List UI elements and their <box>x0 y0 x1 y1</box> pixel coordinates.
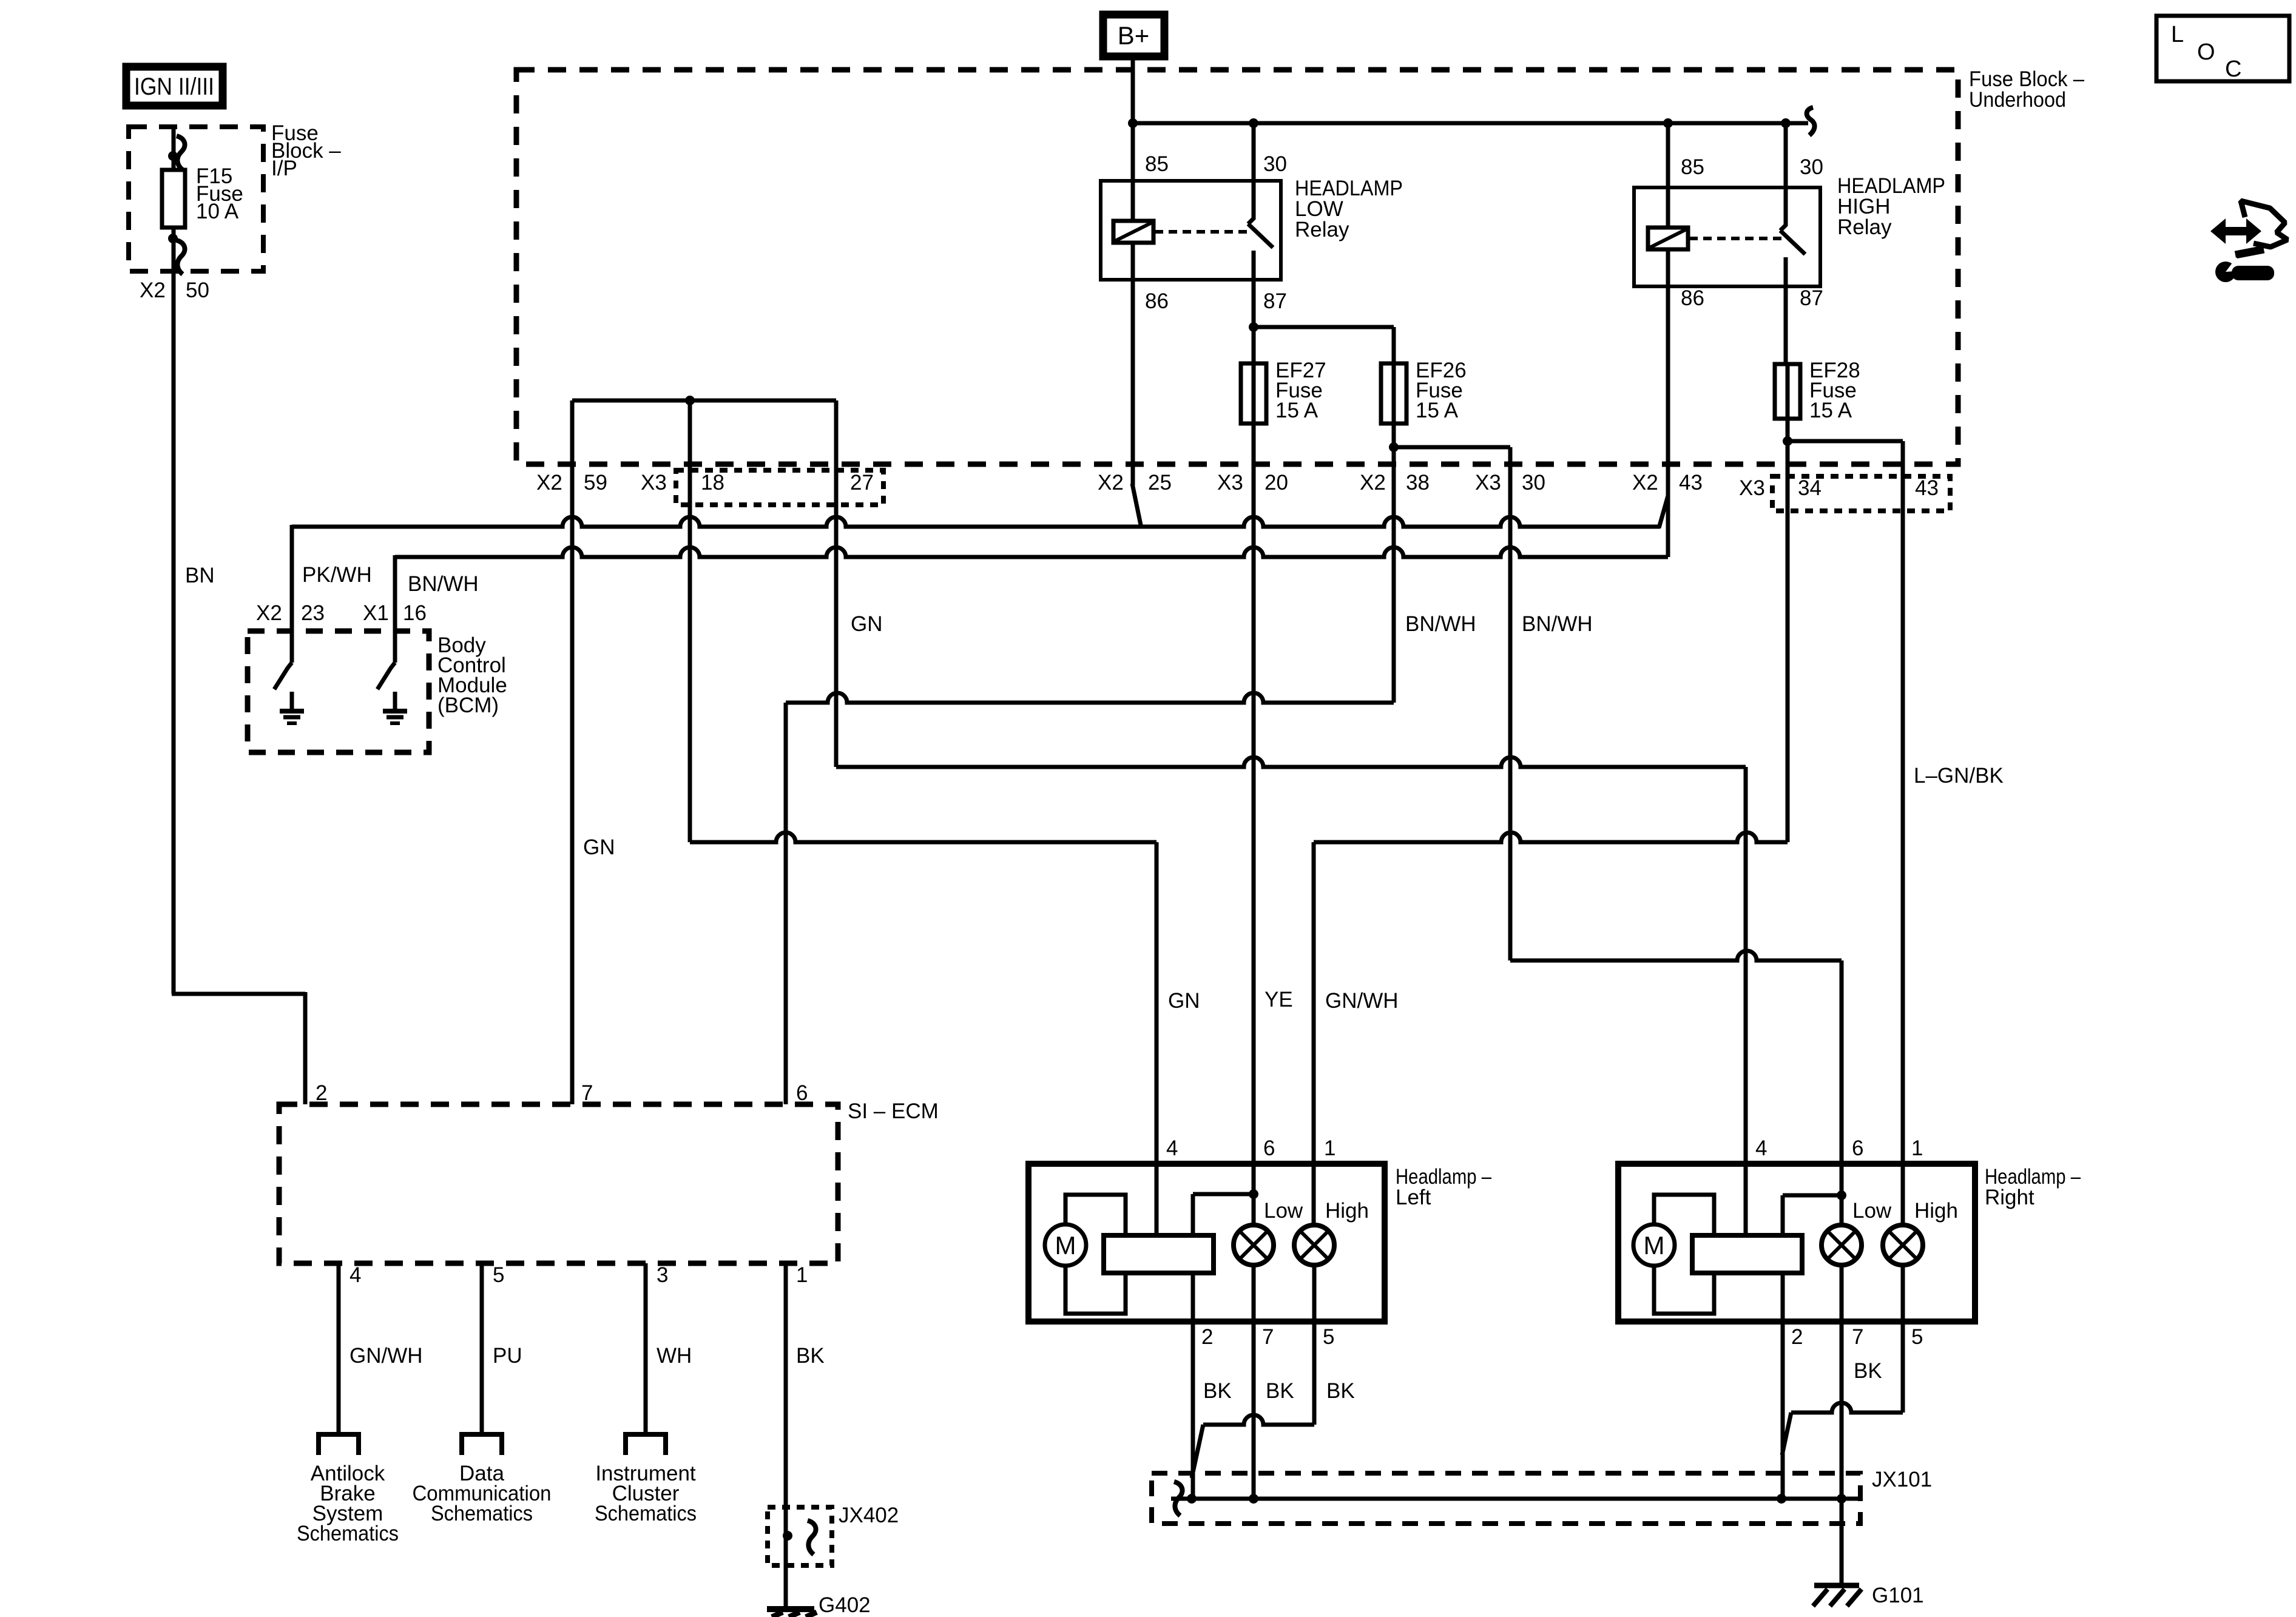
splice bar under relays <box>572 399 836 403</box>
svg-text:Right: Right <box>1985 1186 2034 1209</box>
svg-text:SI – ECM: SI – ECM <box>848 1099 939 1123</box>
svg-text:X2: X2 <box>256 601 282 625</box>
service icon wrench <box>2215 262 2236 282</box>
svg-text:BK: BK <box>1266 1379 1294 1403</box>
svg-text:JX101: JX101 <box>1872 1468 1932 1491</box>
node YE junction left <box>1193 1192 1254 1197</box>
connector dotted box 34-43 <box>1772 476 1950 511</box>
leveling actuator left <box>1104 1235 1214 1273</box>
BCM low beam driver switch <box>274 663 292 689</box>
relay HEADLAMP HIGH box <box>1634 187 1820 286</box>
svg-text:1: 1 <box>796 1263 808 1287</box>
svg-text:20: 20 <box>1264 471 1288 495</box>
wire EF26 net to ECM pin6 <box>786 693 1394 703</box>
node B+ / low relay 85 <box>1128 118 1138 128</box>
high beam bulb left <box>1294 1225 1334 1265</box>
svg-text:25: 25 <box>1148 471 1172 495</box>
wire low relay 87 down <box>1252 280 1256 363</box>
fuse block I/P dashed box <box>129 127 263 271</box>
motor loop wires right <box>1654 1195 1714 1235</box>
motor M right <box>1633 1224 1675 1266</box>
svg-text:L–GN/BK: L–GN/BK <box>1914 764 2004 788</box>
svg-text:30: 30 <box>1800 155 1823 179</box>
body control module dashed box <box>248 631 429 752</box>
svg-text:PU: PU <box>493 1344 522 1368</box>
svg-text:GN: GN <box>851 612 883 636</box>
node splice bar <box>685 396 695 405</box>
svg-text:X2: X2 <box>536 471 562 495</box>
svg-text:4: 4 <box>1755 1136 1767 1160</box>
svg-text:X3: X3 <box>1739 476 1765 500</box>
svg-text:15 A: 15 A <box>1275 399 1319 422</box>
node JX101 pin7 left <box>1249 1494 1258 1504</box>
wire GN/WH EF28 net to headlamp left pin1 <box>1314 832 1788 842</box>
service icon double arrow <box>2210 218 2261 244</box>
svg-text:86: 86 <box>1145 289 1169 313</box>
motor loop wires left <box>1065 1195 1126 1235</box>
wire BN down-left leg <box>172 271 176 994</box>
svg-text:43: 43 <box>1915 476 1939 500</box>
wire pin2 internal right <box>1781 1195 1785 1499</box>
power label IGN II/III <box>126 67 223 106</box>
svg-text:G101: G101 <box>1872 1584 1924 1607</box>
motor M left <box>1045 1224 1086 1266</box>
svg-text:M: M <box>1644 1231 1665 1260</box>
wire PK/WH bus low relay control <box>292 517 1660 527</box>
wire GN to headlamp left pin4 <box>690 832 1156 842</box>
curl symbol top of F15 <box>177 136 185 170</box>
svg-text:5: 5 <box>493 1263 504 1287</box>
svg-text:G402: G402 <box>819 1593 871 1617</box>
svg-text:M: M <box>1055 1231 1076 1260</box>
svg-text:30: 30 <box>1522 471 1545 495</box>
ground symbol in BCM left <box>290 692 294 709</box>
node splice below EF28 <box>1783 436 1792 446</box>
node splice below EF26 <box>1389 442 1399 452</box>
wire ECM pin1 BK <box>784 1263 788 1609</box>
fuse EF26 15A <box>1381 363 1406 424</box>
svg-text:15 A: 15 A <box>1416 399 1459 422</box>
B+ bus inside fuse block <box>1133 121 1808 126</box>
svg-text:O: O <box>2197 39 2215 65</box>
node low relay 30 <box>1249 118 1258 128</box>
svg-text:7: 7 <box>581 1081 593 1105</box>
wire pin2 internal left <box>1191 1194 1195 1499</box>
fuse F15 10A <box>162 170 185 228</box>
wire high relay 86 to connector X2-43 and bus2 <box>1666 286 1670 557</box>
low beam bulb left <box>1234 1225 1274 1265</box>
fuse block underhood dashed box <box>516 70 1958 464</box>
junction block JX101 dashed box <box>1152 1473 1860 1524</box>
high relay coil leg 85-86 <box>1666 123 1670 228</box>
svg-text:16: 16 <box>403 601 427 625</box>
svg-text:59: 59 <box>584 471 607 495</box>
wire B+ into fuse block underhood <box>1131 56 1135 181</box>
node junction right low <box>1783 1193 1842 1198</box>
svg-text:WH: WH <box>657 1344 692 1368</box>
wire BN from IGN through fuse F15 <box>172 127 176 271</box>
svg-text:5: 5 <box>1323 1325 1334 1349</box>
svg-text:34: 34 <box>1798 476 1822 500</box>
svg-text:High: High <box>1325 1199 1369 1223</box>
svg-text:BK: BK <box>796 1344 825 1368</box>
svg-text:30: 30 <box>1263 152 1287 176</box>
svg-text:Schematics: Schematics <box>595 1502 697 1525</box>
wire ECM pin5 PU <box>480 1263 484 1434</box>
svg-text:BN/WH: BN/WH <box>1522 612 1593 636</box>
low relay coil leg 85-86 <box>1252 123 1256 181</box>
wire BK pin5 right <box>1901 1265 1905 1413</box>
svg-text:87: 87 <box>1800 286 1823 310</box>
svg-text:Low: Low <box>1852 1199 1892 1223</box>
svg-text:BN/WH: BN/WH <box>1405 612 1476 636</box>
svg-text:15 A: 15 A <box>1809 399 1852 422</box>
svg-text:5: 5 <box>1911 1325 1923 1349</box>
svg-text:X1: X1 <box>363 601 389 625</box>
svg-text:3: 3 <box>657 1263 668 1287</box>
fuse EF28 15A <box>1775 364 1800 419</box>
svg-text:23: 23 <box>301 601 325 625</box>
node high relay 85 <box>1663 118 1673 128</box>
svg-text:GN/WH: GN/WH <box>1325 989 1399 1013</box>
svg-text:BN/WH: BN/WH <box>408 572 479 596</box>
node JX101 left <box>1187 1494 1197 1504</box>
svg-text:X3: X3 <box>1475 471 1501 495</box>
junction block JX402 dotted box <box>768 1507 832 1565</box>
high relay actuation dashed link <box>1689 237 1784 240</box>
svg-text:7: 7 <box>1262 1325 1274 1349</box>
svg-text:Left: Left <box>1396 1186 1431 1209</box>
svg-text:50: 50 <box>186 279 209 302</box>
svg-text:1: 1 <box>1911 1136 1923 1160</box>
BCM high beam driver switch <box>377 663 395 689</box>
svg-text:GN: GN <box>1168 989 1200 1013</box>
svg-text:27: 27 <box>850 471 874 495</box>
node JX101 right pin7 <box>1837 1494 1846 1504</box>
low relay coil <box>1113 221 1153 243</box>
svg-text:10 A: 10 A <box>196 200 239 223</box>
svg-text:JX402: JX402 <box>839 1504 899 1527</box>
wire branch EF26 to X3-30 <box>1394 445 1510 450</box>
svg-text:2: 2 <box>1201 1325 1213 1349</box>
svg-text:X2: X2 <box>1098 471 1124 495</box>
wire branch to EF26 <box>1254 325 1394 329</box>
svg-text:4: 4 <box>1166 1136 1178 1160</box>
svg-text:43: 43 <box>1679 471 1703 495</box>
svg-text:2: 2 <box>1791 1325 1803 1349</box>
svg-text:X2: X2 <box>1632 471 1658 495</box>
svg-text:Underhood: Underhood <box>1969 88 2066 112</box>
ground G101 <box>1814 1583 1859 1588</box>
svg-text:B+: B+ <box>1118 21 1150 50</box>
leveling actuator right <box>1692 1235 1802 1273</box>
svg-text:6: 6 <box>796 1081 808 1105</box>
wire X3-30 net to headlamp right pin6 <box>1510 951 1842 960</box>
high beam bulb right <box>1883 1225 1923 1265</box>
node JX402 <box>783 1531 792 1541</box>
ground bus in JX101 <box>1171 1497 1858 1501</box>
curl symbol bottom of F15 <box>177 240 185 274</box>
node splice below F15 <box>168 234 178 243</box>
wire BK pin5 left <box>1312 1265 1317 1425</box>
svg-text:(BCM): (BCM) <box>437 694 499 717</box>
curl symbol JX402 <box>808 1521 816 1555</box>
node high relay 30 <box>1781 118 1791 128</box>
wire high relay 87 down to EF28 <box>1784 286 1788 364</box>
wire low relay 86 to connector X2-25 <box>1131 280 1135 485</box>
svg-text:X3: X3 <box>1217 471 1243 495</box>
relay HEADLAMP LOW box <box>1101 181 1281 280</box>
headlamp right box <box>1618 1164 1975 1322</box>
low beam bulb right <box>1822 1225 1862 1265</box>
svg-text:85: 85 <box>1145 152 1169 176</box>
svg-text:86: 86 <box>1681 286 1704 310</box>
high relay coil <box>1648 228 1688 249</box>
svg-text:X2: X2 <box>1360 471 1386 495</box>
svg-text:PK/WH: PK/WH <box>302 563 372 587</box>
curl symbol JX101 <box>1174 1482 1183 1516</box>
wire below EF26 <box>1392 424 1396 703</box>
svg-text:GN: GN <box>583 836 615 859</box>
svg-text:87: 87 <box>1263 289 1287 313</box>
svg-text:Schematics: Schematics <box>431 1502 533 1525</box>
ground G402 <box>767 1606 814 1612</box>
wire BK pin7 right <box>1840 1265 1844 1584</box>
svg-text:C: C <box>2225 56 2241 82</box>
wire X3-18 down to headlamp left pin4 <box>688 400 692 842</box>
svg-text:BN: BN <box>185 564 215 587</box>
connector dotted box 18-27 <box>676 470 883 505</box>
headlamp left box <box>1028 1164 1385 1322</box>
off-page fork to cluster <box>626 1434 666 1455</box>
svg-text:6: 6 <box>1263 1136 1275 1160</box>
svg-text:1: 1 <box>1324 1136 1335 1160</box>
svg-text:BK: BK <box>1203 1379 1232 1403</box>
wire BK pin7 left <box>1252 1265 1256 1499</box>
svg-text:7: 7 <box>1852 1325 1863 1349</box>
wire ECM pin3 WH <box>644 1263 648 1434</box>
svg-text:X2: X2 <box>140 279 166 302</box>
svg-text:Relay: Relay <box>1837 215 1892 239</box>
LOC legend box <box>2156 16 2289 81</box>
node splice 87 to EF26 branch <box>1249 322 1258 332</box>
off-page fork to data comm <box>462 1434 502 1455</box>
svg-text:6: 6 <box>1852 1136 1863 1160</box>
wire X2-59 GN down to ECM pin7 <box>570 400 575 1104</box>
svg-text:I/P: I/P <box>271 157 297 180</box>
svg-text:BK: BK <box>1326 1379 1355 1403</box>
wire low bulb feed right <box>1840 960 1844 1225</box>
ground symbol in BCM right <box>393 692 397 709</box>
svg-text:L: L <box>2171 22 2184 47</box>
service icon outline shape <box>2241 201 2288 247</box>
svg-text:GN/WH: GN/WH <box>349 1344 423 1368</box>
fuse EF27 15A <box>1241 363 1266 424</box>
svg-text:YE: YE <box>1264 988 1293 1011</box>
wire BN/WH bus high relay control <box>395 547 1668 557</box>
low relay switch 30-87 <box>1248 181 1254 224</box>
wire 27 GN down <box>834 400 839 767</box>
svg-text:4: 4 <box>349 1263 361 1287</box>
svg-text:18: 18 <box>701 471 724 495</box>
svg-text:High: High <box>1914 1199 1958 1223</box>
svg-text:X3: X3 <box>641 471 667 495</box>
svg-text:IGN II/III: IGN II/III <box>134 73 214 100</box>
svg-text:85: 85 <box>1681 155 1704 179</box>
svg-text:38: 38 <box>1406 471 1430 495</box>
svg-text:Schematics: Schematics <box>297 1522 399 1545</box>
wire below EF28 <box>1786 419 1790 842</box>
svg-text:Low: Low <box>1264 1199 1303 1223</box>
SI-ECM dashed box <box>279 1104 838 1263</box>
node splice above F15 <box>168 151 178 161</box>
wire branch EF28 to X3-43 L-GN/BK <box>1788 439 1903 444</box>
wire YE low beam left <box>1252 424 1256 1225</box>
svg-text:2: 2 <box>316 1081 327 1105</box>
node JX101 right pin2 <box>1777 1494 1786 1504</box>
off-page fork to ABS <box>319 1434 359 1455</box>
wire GN to headlamp right pin4 <box>836 757 1746 767</box>
wire ECM pin4 GN/WH <box>337 1263 341 1434</box>
power label B+ <box>1103 15 1164 56</box>
svg-text:Relay: Relay <box>1295 218 1349 241</box>
curl symbol at right end of B+ bus <box>1807 107 1815 135</box>
high relay switch 30-87 <box>1784 123 1788 187</box>
service icon bar <box>2235 249 2264 255</box>
svg-text:BK: BK <box>1854 1359 1882 1383</box>
low relay actuation dashed link <box>1155 230 1251 234</box>
